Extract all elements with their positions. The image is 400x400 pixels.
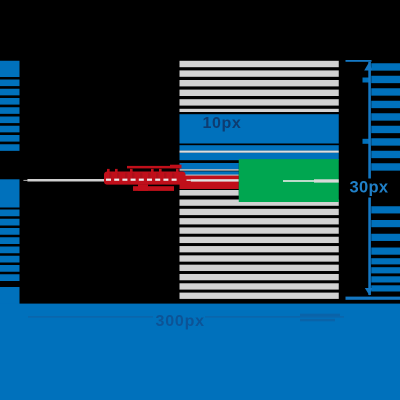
- left text column block 3: [0, 287, 20, 400]
- bottom dimension end marks: [300, 314, 340, 317]
- bottom dimension line (darker) right: [205, 316, 344, 318]
- red word ascender bumps: [107, 169, 179, 172]
- measure line arrow tail: [23, 180, 27, 181]
- dimension vertical line (lower): [368, 198, 371, 296]
- right text column rows: [371, 63, 400, 291]
- blue highlight row 2: [180, 145, 339, 150]
- measure line: [27, 179, 104, 182]
- red word slab (right): [180, 176, 239, 189]
- measure line over red (thin lead): [187, 180, 191, 181]
- bottom blue slab: [0, 304, 400, 400]
- right column nub 2: [363, 139, 369, 144]
- dimension vertical line (upper): [368, 62, 371, 179]
- light separator line 2: [180, 175, 239, 176]
- left text column rows (upper): [0, 80, 20, 151]
- light separator above row 3: [180, 151, 339, 153]
- central gray row beside green box: [180, 190, 239, 196]
- red overline: [127, 166, 181, 169]
- red connector: [170, 165, 182, 169]
- dimension bottom arrowhead: [365, 288, 372, 296]
- svg-text:30px: 30px: [350, 178, 389, 196]
- svg-text:300px: 300px: [156, 313, 205, 330]
- left text column block 1: [0, 61, 20, 77]
- red word glyph strokes: [109, 173, 175, 179]
- bottom dimension line (darker) left: [28, 316, 153, 318]
- white dashes over red: [106, 179, 177, 181]
- red word slab (left): [104, 172, 186, 185]
- left text column rows (lower): [0, 210, 20, 282]
- central text rows (bottom): [180, 200, 339, 299]
- svg-text:10px: 10px: [203, 115, 242, 132]
- light separator line 1: [180, 169, 239, 170]
- thin blue band left of green box: [180, 171, 239, 174]
- dimension top arrowhead: [364, 62, 372, 71]
- dimension top arm: [346, 60, 372, 62]
- blue highlight row 3: [180, 153, 339, 160]
- measure line over red (thick): [191, 179, 239, 181]
- green box: [239, 159, 339, 202]
- blue band left of green box: [180, 163, 239, 169]
- gray pointer cap in green box: [314, 179, 339, 182]
- right column nub 1: [363, 78, 369, 83]
- central text rows (top): [180, 61, 339, 112]
- red descender: [138, 185, 148, 191]
- blue highlight slab: [180, 114, 339, 143]
- white pointer line in green box: [283, 180, 314, 182]
- red underline: [133, 186, 174, 191]
- dimension bottom arm: [346, 297, 400, 300]
- left text column block 2: [0, 179, 20, 207]
